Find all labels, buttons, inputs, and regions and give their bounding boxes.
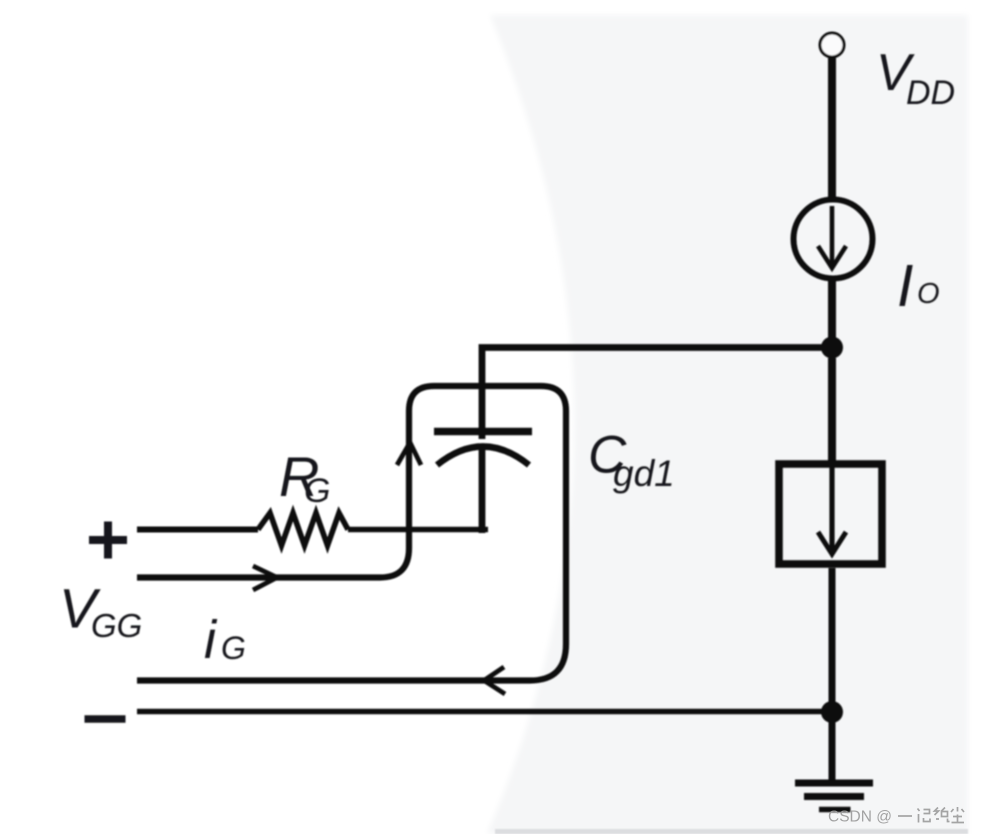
svg-text:i: i [204, 610, 218, 670]
svg-text:G: G [304, 472, 330, 510]
svg-text:G: G [221, 630, 246, 666]
svg-text:DD: DD [906, 74, 955, 112]
svg-text:O: O [917, 278, 940, 310]
svg-text:I: I [897, 253, 913, 319]
svg-text:gd1: gd1 [613, 453, 675, 494]
svg-text:CSDN @: CSDN @ [828, 809, 892, 826]
svg-text:GG: GG [91, 607, 142, 644]
